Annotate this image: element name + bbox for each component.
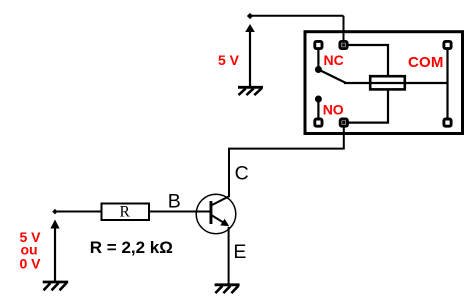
terminal pin top-left: [315, 41, 322, 48]
wire down into relay coil pin: [343, 16, 345, 42]
svg-text:R: R: [120, 203, 131, 220]
svg-text:R = 2,2 kΩ: R = 2,2 kΩ: [90, 238, 173, 257]
collector diagonal: [212, 196, 229, 205]
NC fixed contact dot: [315, 66, 322, 73]
node A (5V supply top node): [247, 13, 253, 19]
terminal pin COM top: [444, 41, 451, 48]
input arrow: [50, 220, 59, 282]
wire relay NO pin to collector: [229, 127, 344, 197]
5V supply arrow: [245, 24, 255, 87]
svg-text:C: C: [235, 163, 249, 185]
svg-text:NO: NO: [323, 102, 344, 118]
terminal pin coil bottom: [340, 119, 347, 126]
wire NC pillar: [317, 49, 319, 68]
terminal pin coil top: [340, 41, 347, 48]
terminal pin bottom-left: [315, 119, 322, 126]
node input: [52, 209, 58, 215]
svg-text:0 V: 0 V: [20, 256, 42, 272]
common line through coil: [344, 82, 448, 84]
svg-text:COM: COM: [408, 54, 444, 71]
ground (top supply): [238, 87, 263, 95]
wire input node to resistor: [55, 211, 101, 213]
emitter arrowhead: [220, 219, 229, 227]
relay body: [305, 32, 463, 134]
wire resistor to base: [149, 211, 210, 213]
transistor Q1 (NPN): [196, 194, 236, 234]
terminal pin COM bottom: [444, 119, 451, 126]
resistor R: [102, 204, 150, 221]
COM vertical link: [446, 49, 448, 119]
ground (input): [43, 282, 68, 290]
base bar: [210, 201, 213, 224]
switch arm: [318, 70, 346, 84]
svg-text:B: B: [168, 191, 181, 213]
wire emitter to ground: [228, 227, 230, 285]
svg-text:E: E: [233, 241, 246, 263]
coil wire from bottom pin: [346, 90, 388, 123]
coil wire from top pin: [346, 45, 388, 76]
common line inside coil: [371, 82, 404, 84]
NO fixed contact dot: [315, 96, 322, 103]
wire NO pillar: [317, 100, 319, 119]
svg-text:NC: NC: [324, 52, 344, 68]
emitter diagonal: [212, 216, 225, 224]
relay K1: [305, 32, 463, 134]
wire node A to relay pin (horizontal): [250, 15, 344, 17]
coil body: [370, 76, 405, 89]
ground (emitter): [215, 285, 240, 293]
svg-text:5 V: 5 V: [218, 52, 240, 68]
